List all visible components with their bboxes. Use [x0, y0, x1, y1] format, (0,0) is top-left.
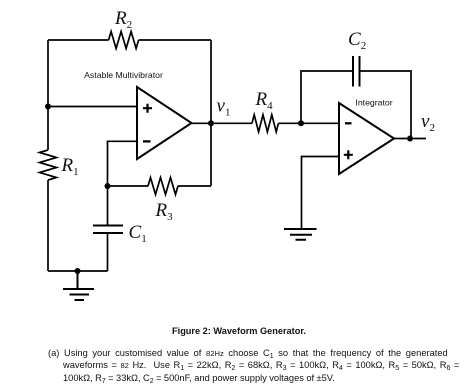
- op-amp U1 (Astable Multivibrator): [137, 87, 192, 159]
- resistor R1: [40, 150, 57, 180]
- wire feedback right (C2 to output): [360, 71, 412, 139]
- node v1: [208, 120, 214, 126]
- capacitor C2: [353, 56, 360, 87]
- svg-text:v2: v2: [421, 111, 435, 134]
- paragraph line 1: [48, 348, 448, 360]
- wire from - input of U1 down: [108, 141, 138, 186]
- wire R4 to - input of U2: [278, 122, 339, 124]
- wire right vertical to R3 level: [210, 40, 212, 186]
- svg-text:Integrator: Integrator: [355, 98, 392, 108]
- ground (left): [63, 271, 94, 300]
- minus symbol U1: [143, 140, 151, 142]
- wire bottom-left horizontal: [48, 270, 108, 272]
- resistor R4: [252, 115, 278, 132]
- wire left vertical lower: [47, 180, 49, 271]
- svg-text:R1: R1: [61, 155, 79, 178]
- wire bottom right of R3: [178, 185, 211, 187]
- paragraph line 3: [63, 373, 335, 385]
- caption Figure 2: [2, 326, 474, 336]
- plus symbol U1: [143, 104, 152, 113]
- svg-text:R4: R4: [255, 89, 274, 112]
- svg-text:Astable Multivibrator: Astable Multivibrator: [84, 70, 163, 80]
- op-amp U2 (Integrator): [339, 103, 394, 174]
- wire top-left segment: [48, 39, 109, 41]
- wire + input of U2 to ground: [302, 157, 340, 229]
- node: junction at R3/C1: [105, 183, 111, 189]
- node: ground junction: [75, 268, 81, 274]
- svg-text:R3: R3: [155, 200, 174, 223]
- wire to + input of U1: [48, 106, 137, 108]
- wire bottom left of R3: [108, 185, 149, 187]
- svg-text:v1: v1: [217, 96, 231, 119]
- svg-text:C2: C2: [348, 29, 366, 52]
- capacitor C1: [93, 226, 123, 234]
- svg-text:C1: C1: [129, 222, 147, 245]
- node: integrator input junction: [298, 120, 304, 126]
- wire v1 to R4: [211, 122, 252, 124]
- wire left vertical upper: [47, 40, 49, 150]
- wire top-right segment: [139, 39, 211, 41]
- paragraph line 2: [63, 360, 459, 372]
- plus symbol U2: [344, 150, 353, 159]
- ground (middle): [284, 229, 317, 240]
- node v2: [407, 136, 413, 142]
- wire C1 top lead: [107, 186, 109, 226]
- wire U1 output: [192, 122, 212, 124]
- wire U2 output: [394, 138, 426, 140]
- wire feedback left (up to C2): [301, 71, 353, 123]
- node: non-inverting input junction: [45, 104, 51, 110]
- svg-text:R2: R2: [114, 8, 132, 31]
- wire C1 bottom lead: [107, 233, 109, 271]
- minus symbol U2: [345, 122, 352, 124]
- resistor R3: [148, 178, 178, 195]
- resistor R2: [109, 32, 139, 49]
